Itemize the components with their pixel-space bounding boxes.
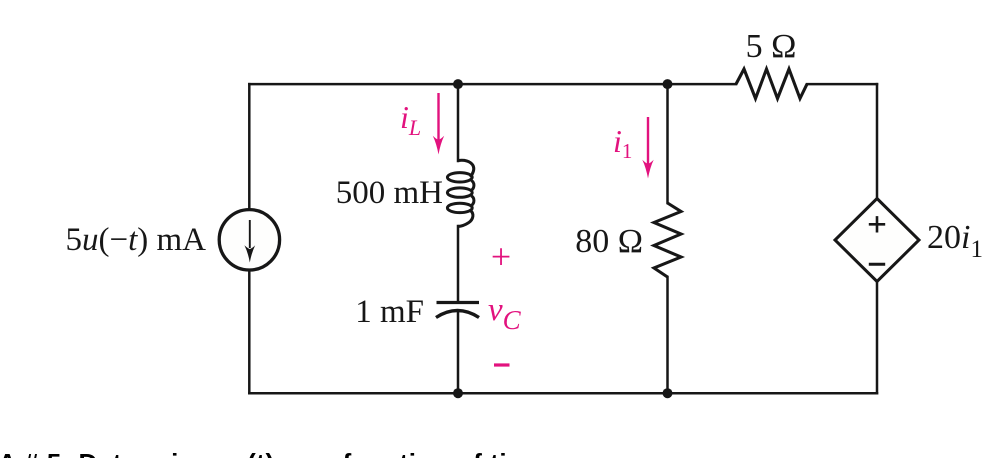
wire branch L/C upper — [457, 84, 460, 161]
arrow current i1 — [642, 117, 653, 179]
resistor R 80ohm — [654, 203, 681, 277]
capacitor C 1mF bottom curved plate — [436, 311, 479, 318]
minus sign inside diamond — [869, 263, 885, 266]
svg-text:+: + — [491, 237, 511, 277]
wire branch 80ohm upper — [666, 84, 669, 203]
wire left rail lower — [248, 271, 251, 394]
current source arrow — [249, 220, 251, 248]
plus sign inside diamond — [869, 216, 885, 232]
wire right rail upper — [876, 84, 879, 199]
wire between inductor and capacitor — [457, 226, 460, 301]
svg-text:iL: iL — [400, 99, 421, 140]
node top-left junction — [453, 79, 463, 89]
capacitor C 1mF top plate — [437, 301, 480, 304]
node bottom-right junction — [663, 388, 673, 398]
node bottom-left junction — [453, 388, 463, 398]
label minus vC — [494, 363, 510, 366]
wire below capacitor — [457, 311, 460, 393]
arrow current iL — [433, 93, 444, 155]
current source I 5u(-t) mA circle — [219, 210, 279, 270]
inductor L 500mH — [447, 160, 474, 226]
svg-text:1 mF: 1 mF — [355, 294, 424, 330]
wire right rail lower — [876, 281, 879, 393]
wire top rail left segment — [249, 83, 736, 86]
svg-text:500 mH: 500 mH — [336, 175, 443, 211]
resistor R 5ohm — [736, 69, 807, 99]
dependent source U 20i1 diamond — [835, 199, 919, 282]
svg-text:20i1: 20i1 — [927, 219, 983, 263]
wire top rail right segment — [807, 83, 877, 86]
node top-right junction — [663, 79, 673, 89]
svg-text:vC: vC — [488, 292, 522, 335]
svg-text:i1: i1 — [613, 123, 632, 163]
wire left rail upper — [248, 84, 251, 209]
wire bottom rail — [249, 392, 877, 395]
wire branch 80ohm lower — [666, 277, 669, 393]
svg-text:80 Ω: 80 Ω — [575, 223, 643, 260]
svg-text:5 Ω: 5 Ω — [746, 28, 797, 65]
caption text (cut off at bottom) — [0, 450, 546, 458]
svg-text:5u(−t) mA: 5u(−t) mA — [65, 222, 206, 258]
